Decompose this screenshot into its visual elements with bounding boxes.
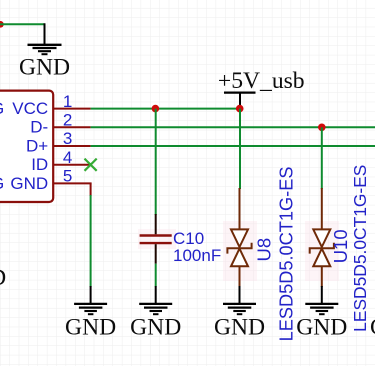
junction dot (left edge, top wire) [0,21,4,28]
svg-text:GND: GND [214,314,265,340]
wire (vertical drop to U8) [239,109,241,189]
wire VCC net (y=108.6) [91,108,240,110]
wire (vertical drop to C10) [155,109,157,215]
svg-text:5: 5 [63,167,72,186]
wire (C10 to ground) [155,264,157,287]
svg-text:G: G [0,99,4,118]
svg-text:GND: GND [0,265,6,291]
pin 5 GND [10,167,91,193]
wire D+ net (y=146) [91,145,375,147]
svg-text:GND: GND [65,314,116,340]
svg-text:4: 4 [63,148,72,167]
svg-text:G: G [0,174,4,193]
svg-text:1: 1 [63,92,72,111]
svg-text:GND: GND [130,314,181,340]
power port +5V_usb [218,68,305,108]
ground (bottom #2, C10) [130,286,181,340]
capacitor C10 [138,214,176,264]
svg-text:100nF: 100nF [173,246,221,265]
ground (bottom #3, U8) [214,286,265,340]
junction dot (VCC / C10 drop) [152,105,160,113]
svg-text:GND: GND [10,174,48,193]
svg-text:LESD5D5.0CT1G-ES: LESD5D5.0CT1G-ES [350,165,370,332]
ground (bottom #4, U10) [296,286,347,340]
svg-text:3: 3 [63,129,72,148]
junction dot (VCC / +5V) [236,105,244,113]
svg-text:2: 2 [63,111,72,130]
wire (vertical drop to U10) [321,127,323,189]
svg-text:D+: D+ [26,136,48,155]
svg-text:U10: U10 [330,229,351,263]
pin 1 VCC [12,92,90,118]
wire (pin5 down to ground) [90,183,92,287]
pin 4 ID [31,148,90,174]
svg-text:ID: ID [31,155,48,174]
svg-text:VCC: VCC [12,99,48,118]
svg-text:GND: GND [370,314,375,340]
connector box (USB, cut off at left edge) [0,91,53,202]
ground (bottom #1, pin5) [65,286,116,340]
pin 3 D+ [26,129,91,155]
TVS diode U8 [223,188,257,287]
svg-text:U8: U8 [253,238,274,262]
wire D- net (y=127.3) [91,126,375,128]
svg-text:GND: GND [296,314,347,340]
wire (top-left horizontal to GND) [0,23,45,25]
no-connect X on pin 4 ID [85,159,97,171]
ground (top-left GND symbol) [28,23,62,54]
svg-text:LESD5D5.0CT1G-ES: LESD5D5.0CT1G-ES [277,167,297,342]
svg-text:+5V_usb: +5V_usb [218,68,305,94]
pin 2 D- [30,111,90,137]
TVS diode U10 [305,188,339,287]
junction dot (D- / U10 drop) [318,124,326,132]
svg-text:GND: GND [19,55,70,81]
svg-text:D-: D- [30,118,48,137]
